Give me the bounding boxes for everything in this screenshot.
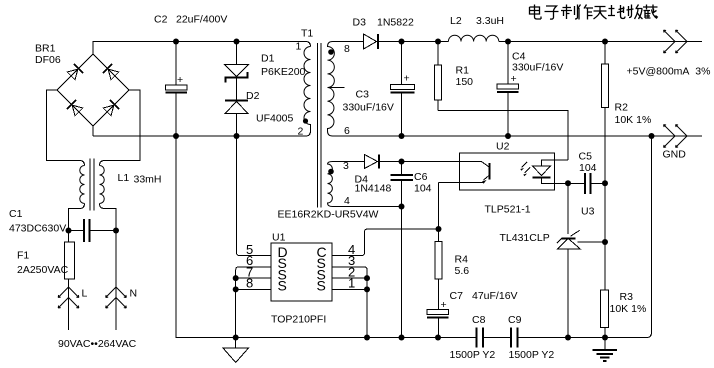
svg-text:47uF/16V: 47uF/16V	[472, 290, 518, 302]
capacitor C7	[427, 279, 518, 338]
svg-text:104: 104	[579, 162, 597, 174]
node source bus right on rail	[364, 335, 370, 341]
wire U1 pin1	[332, 288, 367, 290]
node C1 right junction	[113, 228, 119, 234]
connector L input	[58, 287, 87, 330]
svg-text:5.6: 5.6	[455, 265, 470, 277]
node D4 cathode junction	[399, 159, 405, 165]
capacitor C5	[568, 151, 605, 195]
svg-text:3.3uH: 3.3uH	[476, 15, 504, 27]
svg-text:TL431CLP: TL431CLP	[500, 232, 550, 244]
node secondary polarity dot	[328, 49, 334, 55]
电	[530, 5, 542, 20]
svg-text:+: +	[441, 299, 447, 311]
resistor R2	[602, 42, 652, 184]
diode D2 UF4005	[225, 90, 294, 136]
wire U1 pin4 control to R4 node	[332, 229, 439, 256]
svg-text:C1: C1	[9, 208, 23, 220]
wire U3 cathode drop	[567, 183, 569, 234]
T1 secondary winding pin8-pin6	[328, 42, 335, 137]
svg-text:U2: U2	[496, 141, 510, 153]
diode D3 1N5822	[353, 17, 414, 50]
wire left AC: bridge left corner down to L1	[47, 90, 85, 166]
wire C5 feedback vertical	[604, 183, 606, 290]
ground primary (triangle)	[223, 338, 249, 363]
wire emitter to R4	[438, 183, 440, 242]
node C3 bottom junction	[399, 133, 405, 139]
capacitor C2	[154, 14, 227, 137]
inductor L1 common-mode choke	[69, 159, 162, 231]
node pin2 junction	[364, 275, 370, 281]
svg-text:C5: C5	[579, 151, 593, 163]
svg-text:C8: C8	[472, 314, 486, 326]
作	[578, 5, 594, 20]
svg-text:+: +	[404, 73, 410, 85]
node primary polarity dot	[303, 118, 308, 123]
藏	[643, 5, 658, 19]
svg-text:F1: F1	[17, 250, 29, 262]
inductor L2 3.3uH	[448, 15, 504, 42]
wire GND to bottom rail	[647, 136, 652, 338]
wire U1 pin5 drain to D2 junction	[237, 136, 272, 256]
node R3 on rail	[602, 335, 608, 341]
svg-text:473DC630V: 473DC630V	[9, 223, 66, 235]
svg-text:EE16R2KD-UR5V4W: EE16R2KD-UR5V4W	[278, 209, 379, 221]
svg-text:T1: T1	[301, 28, 313, 40]
transistor Q phototransistor	[460, 161, 482, 163]
capacitor C6	[391, 162, 432, 207]
svg-text:1N4148: 1N4148	[355, 183, 392, 195]
svg-text:S: S	[317, 278, 326, 294]
node R2 top junction	[602, 39, 608, 45]
svg-text:330uF/16V: 330uF/16V	[512, 62, 563, 74]
resistor R4	[435, 242, 469, 280]
wire bias return to rail	[401, 207, 403, 338]
T1 primary winding pin1-pin2	[304, 47, 310, 132]
node C5 right junction	[602, 180, 608, 186]
svg-text:22uF/400V: 22uF/400V	[176, 14, 227, 26]
svg-text:6: 6	[344, 125, 350, 137]
svg-text:R1: R1	[456, 65, 470, 77]
connector +5V output	[627, 30, 711, 77]
子	[545, 6, 559, 19]
制	[561, 5, 578, 20]
svg-text:1N5822: 1N5822	[377, 17, 414, 29]
wire right AC: bridge right corner down to L1	[100, 90, 141, 166]
wire secondary ground rail	[333, 135, 703, 137]
node pin1 junction	[364, 286, 370, 292]
svg-text:R2: R2	[615, 102, 629, 114]
svg-text:L1: L1	[118, 172, 130, 184]
svg-text:1500P Y2: 1500P Y2	[509, 349, 555, 361]
svg-text:L: L	[82, 288, 88, 300]
node source bus left on rail	[233, 335, 239, 341]
wire bottom rail	[176, 136, 647, 338]
svg-text:R4: R4	[455, 254, 469, 266]
wire secondary top rail	[333, 41, 703, 43]
node C5 left junction	[565, 180, 571, 186]
op-amp U1 TOP210PFI	[246, 232, 355, 326]
收	[627, 5, 643, 20]
svg-text:+5V@800mA 3%: +5V@800mA 3%	[627, 66, 711, 78]
wire bottom primary rail	[93, 131, 311, 136]
svg-text:D2: D2	[246, 90, 260, 102]
wire U1 pin8	[236, 288, 271, 290]
svg-text:2: 2	[298, 126, 304, 138]
capacitor C4	[497, 42, 563, 137]
transformer T1	[278, 28, 379, 221]
capacitor C8 1500P Y2	[450, 314, 496, 361]
node GND vertical junction	[649, 133, 655, 139]
node pin8 junction	[233, 286, 239, 292]
node C6 bottom junction	[399, 204, 405, 210]
T1 bias winding pin3-pin4	[328, 162, 333, 207]
svg-text:C3: C3	[356, 89, 370, 101]
node L2 right junction	[505, 39, 511, 45]
svg-text:33mH: 33mH	[134, 174, 162, 186]
node C2 top junction	[173, 39, 179, 45]
node C4 bottom junction	[505, 133, 511, 139]
svg-text:104: 104	[414, 183, 432, 195]
svg-text:2A250VAC: 2A250VAC	[17, 264, 69, 276]
svg-text:UF4005: UF4005	[256, 113, 294, 125]
resistor R1	[435, 42, 474, 111]
bridge rectifier BR1	[35, 43, 129, 127]
wire bias top	[333, 161, 460, 163]
svg-text:+: +	[511, 73, 517, 85]
resistor R3	[601, 290, 647, 338]
svg-text:8: 8	[344, 43, 350, 55]
svg-text:150: 150	[456, 76, 474, 88]
svg-text:C2: C2	[154, 14, 168, 26]
node U3 anode on rail	[565, 335, 571, 341]
T1 core	[318, 43, 322, 208]
svg-text:C7: C7	[450, 290, 464, 302]
svg-text:1500P Y2: 1500P Y2	[450, 349, 496, 361]
svg-text:C6: C6	[414, 171, 428, 183]
node C1 left junction	[66, 228, 72, 234]
node C7 on rail	[435, 335, 441, 341]
node U3 branch junction	[602, 239, 608, 245]
capacitor C9 1500P Y2	[508, 314, 554, 361]
node bias return on rail	[399, 335, 405, 341]
地	[608, 5, 625, 19]
transistor U3 TL431CLP	[500, 206, 606, 338]
svg-text:GND: GND	[663, 149, 687, 161]
svg-text:+: +	[177, 74, 183, 86]
svg-text:TLP521-1: TLP521-1	[485, 204, 531, 216]
node C3 top junction	[399, 39, 405, 45]
天	[594, 7, 607, 20]
node D1 top junction	[234, 39, 240, 45]
svg-text:U3: U3	[581, 206, 595, 218]
svg-text:U1: U1	[272, 232, 286, 244]
svg-text:4: 4	[344, 195, 350, 207]
wire R1 bottom to LED anode feed	[438, 111, 568, 161]
wire U1 pin3 bus	[332, 267, 367, 338]
LED in opto	[522, 162, 531, 173]
diode D1 P6KE200 (TVS)	[225, 42, 306, 100]
connector N input	[106, 231, 137, 331]
svg-text:330uF/16V: 330uF/16V	[343, 102, 394, 114]
svg-text:10K 1%: 10K 1%	[610, 303, 647, 315]
svg-text:S: S	[278, 278, 287, 294]
svg-text:90VAC••264VAC: 90VAC••264VAC	[58, 338, 137, 350]
label collection (chinese, hand strokes)	[530, 5, 658, 20]
svg-text:10K 1%: 10K 1%	[615, 114, 652, 126]
node C2 bottom junction	[173, 133, 179, 139]
svg-text:DF06: DF06	[35, 54, 61, 66]
connector GND output	[663, 125, 688, 161]
wire bias bottom	[333, 206, 402, 208]
svg-text:P6KE200: P6KE200	[261, 66, 306, 78]
T1 secondary tap stub	[328, 87, 345, 89]
capacitor C1	[9, 208, 116, 242]
node L2 left junction	[435, 39, 441, 45]
wire top primary rail	[93, 42, 311, 55]
diode D4 1N4148	[355, 155, 392, 195]
svg-text:TOP210PFI: TOP210PFI	[271, 314, 326, 326]
svg-text:C9: C9	[508, 314, 522, 326]
wire U1 pin7	[236, 277, 271, 279]
ground earth (secondary)	[593, 338, 618, 361]
svg-text:D1: D1	[261, 53, 275, 65]
opto-coupler U2 TLP521-1	[439, 141, 569, 216]
svg-text:BR1: BR1	[35, 43, 56, 55]
node pin7 junction	[233, 275, 239, 281]
svg-text:D3: D3	[353, 17, 367, 29]
capacitor C3	[343, 42, 415, 137]
node bias polarity dot	[328, 169, 334, 175]
node D2 bottom junction	[234, 133, 240, 139]
wire U1 pin6 source bus	[236, 267, 271, 338]
wire U1 pin2	[332, 277, 367, 279]
node R4 top junction	[436, 226, 442, 232]
wire bridge bottom to rail	[92, 126, 94, 136]
fuse F1	[17, 231, 75, 288]
svg-text:N: N	[130, 288, 138, 300]
svg-text:1: 1	[296, 41, 302, 53]
svg-text:L2: L2	[450, 15, 462, 27]
svg-text:R3: R3	[620, 291, 634, 303]
